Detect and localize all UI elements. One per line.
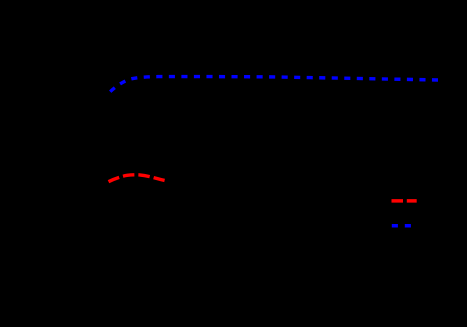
legend blue line sample (392, 224, 417, 228)
legend red line sample (392, 199, 417, 203)
red dashed curve (lower short arc) (109, 175, 165, 182)
blue dashed curve (upper series) (110, 77, 438, 92)
